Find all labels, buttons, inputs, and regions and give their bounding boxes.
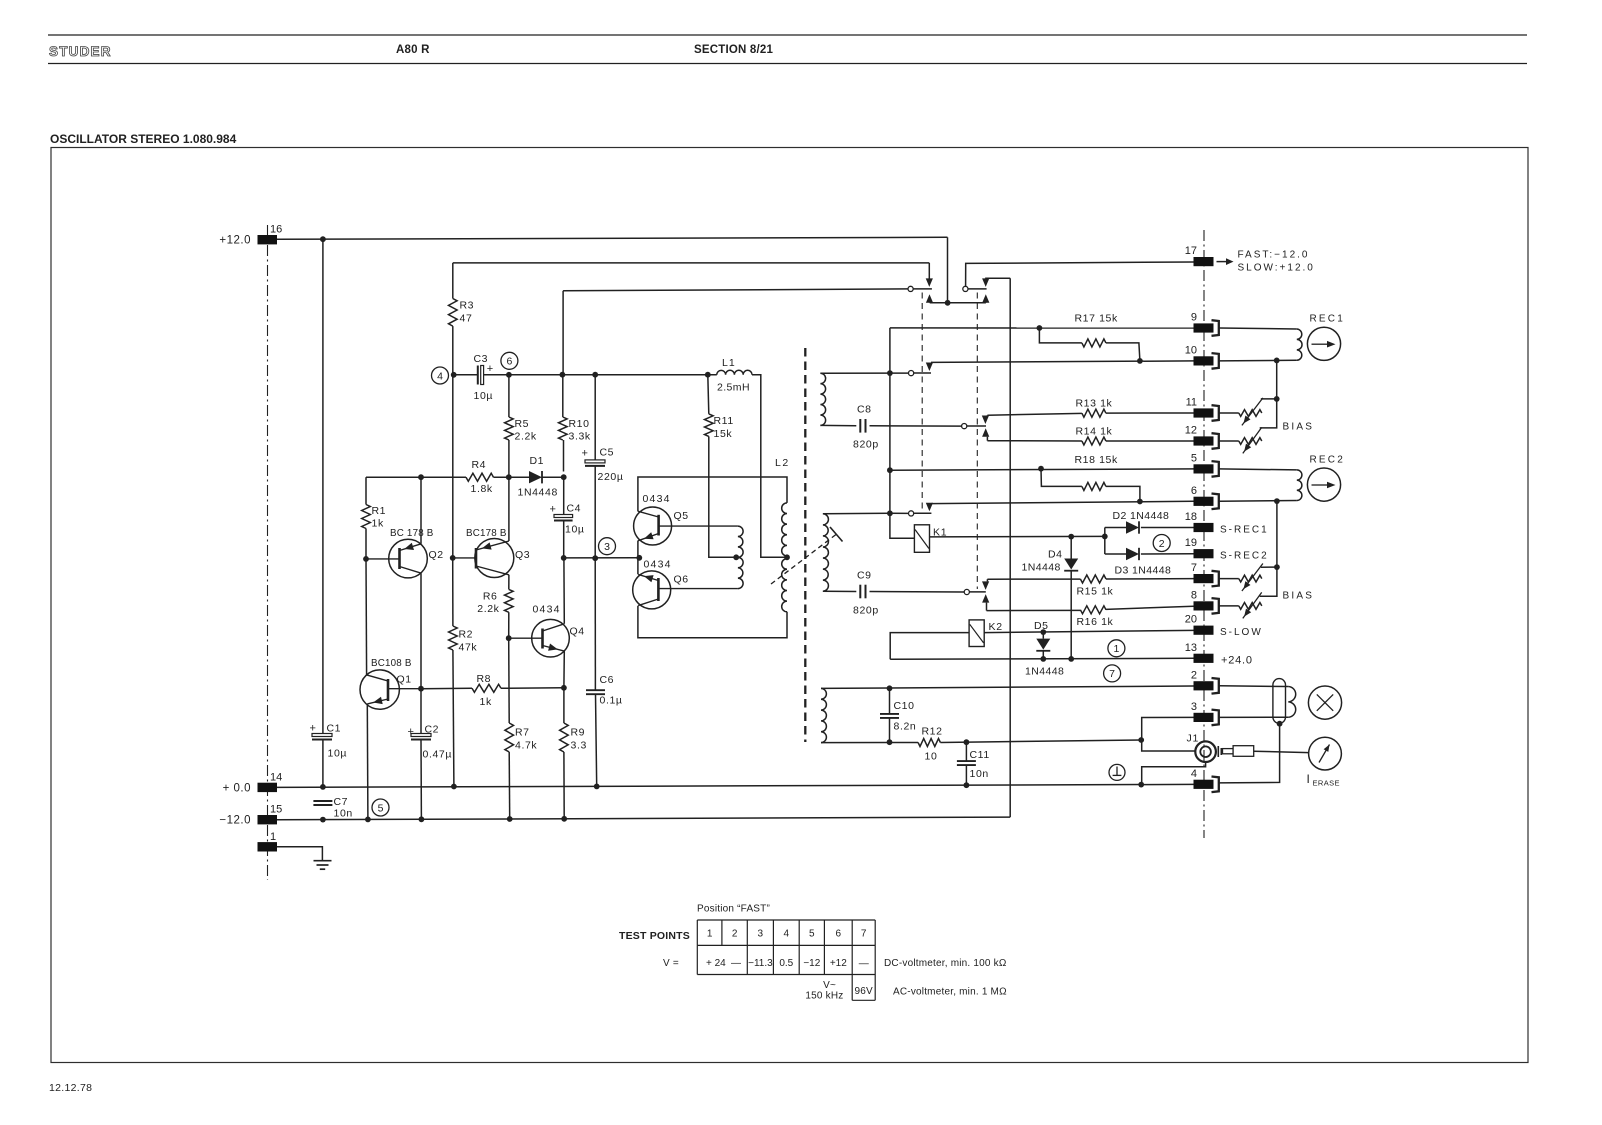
test point circle 4 node 4: [432, 367, 449, 384]
erase current meter: [1309, 737, 1342, 770]
capacitor C7: [313, 800, 332, 802]
inductor L2 primary lower half: [782, 559, 787, 612]
terminal 9: [1194, 323, 1214, 332]
svg-text:15k: 15k: [714, 428, 733, 440]
svg-text:Q4: Q4: [570, 626, 585, 638]
svg-text:−12: −12: [803, 958, 820, 969]
terminal 13: [1194, 654, 1214, 663]
svg-text:C10: C10: [894, 700, 915, 712]
svg-text:S-REC1: S-REC1: [1220, 525, 1269, 536]
junction node6 C5 column: [592, 372, 598, 378]
svg-text:V~: V~: [823, 980, 836, 991]
svg-text:REC2: REC2: [1310, 455, 1345, 466]
bias trimmer 1: [1239, 410, 1262, 417]
svg-text:R16 1k: R16 1k: [1077, 616, 1114, 628]
svg-text:C9: C9: [857, 570, 872, 582]
svg-text:7: 7: [861, 929, 867, 940]
wire node3 to C6: [594, 558, 596, 690]
junction -12V Q1 emitter column: [365, 817, 371, 823]
page header rule top: [48, 34, 1527, 36]
wire common column x890: [890, 328, 915, 538]
svg-text:+: +: [550, 504, 556, 516]
svg-text:STUDER: STUDER: [49, 44, 112, 59]
terminal 7 wire with R15: [987, 578, 1080, 580]
wire terminal 8 to trimmer: [1219, 605, 1239, 607]
svg-text:0434: 0434: [643, 493, 671, 505]
terminal 20: [1194, 626, 1214, 635]
bias column REC2: [1276, 501, 1278, 567]
resistor R10: [559, 417, 568, 440]
svg-text:10n: 10n: [970, 768, 989, 780]
terminal 3: [1194, 713, 1214, 722]
junction R4 row / Q2 column: [418, 474, 424, 480]
svg-text:C11: C11: [970, 749, 990, 761]
svg-text:R11: R11: [714, 415, 734, 427]
terminal 17: [1194, 257, 1214, 266]
resistor R1: [362, 505, 371, 529]
resistor R3: [449, 299, 458, 327]
svg-text:96V: 96V: [854, 986, 873, 997]
svg-text:16: 16: [270, 224, 282, 236]
svg-text:10: 10: [925, 751, 938, 763]
terminal 6 wire from switch: [931, 501, 1193, 503]
svg-text:14: 14: [270, 771, 282, 783]
junction R17 tap: [1037, 325, 1043, 331]
wire Q5 collector loop top: [638, 477, 787, 512]
wire terminal 5 to REC2 coil: [1219, 469, 1297, 470]
junction REC2 return / bias column: [1274, 498, 1280, 504]
transistor Q4 0434: [532, 619, 570, 657]
wire C1 branch vertical: [322, 239, 324, 733]
test point circle 1: [1108, 640, 1125, 657]
junction L2 centre tap: [784, 554, 790, 560]
svg-text:K2: K2: [989, 621, 1003, 633]
terminal 1: [258, 842, 278, 851]
wire R3 column through Q3 base: [452, 375, 454, 558]
svg-text:220µ: 220µ: [598, 471, 624, 483]
inductor L2 primary upper half: [782, 503, 787, 556]
ground symbol: [314, 860, 332, 862]
transformer secondary 2 winding: [823, 514, 829, 591]
diode D3 1N4448: [1105, 553, 1126, 555]
terminal 5 wire: [890, 469, 1194, 470]
junction 0V rail J1 ground branch: [1138, 782, 1144, 788]
wire terminal 1 to ground: [277, 847, 322, 861]
wire C5 column from node6: [594, 375, 596, 460]
svg-text:3.3k: 3.3k: [569, 431, 591, 443]
svg-text:D4: D4: [1048, 549, 1063, 561]
test point circle 3: [599, 538, 616, 555]
page header rule bottom: [48, 63, 1527, 65]
svg-text:9: 9: [1191, 312, 1197, 324]
wire C1 to 0V rail: [322, 740, 324, 787]
record head REC2 coil: [1297, 470, 1302, 501]
svg-text:−12.0: −12.0: [219, 815, 251, 827]
switch contact FAST left: [908, 286, 913, 291]
erase winding bottom wire to R12: [821, 742, 918, 744]
svg-text:R12: R12: [922, 726, 943, 738]
junction common column R18 tee: [887, 467, 893, 473]
secondary 1 top wire to common column: [820, 372, 890, 374]
svg-text:R18 15k: R18 15k: [1075, 454, 1118, 466]
terminal 4: [1194, 780, 1214, 789]
svg-text:—: —: [731, 958, 741, 969]
left edge-connector dash-dot line: [267, 225, 269, 880]
junction D2/D3 fork: [1102, 534, 1108, 540]
wire Q3 collector to R6: [508, 575, 510, 590]
svg-text:BIAS: BIAS: [1283, 422, 1315, 433]
svg-text:+24.0: +24.0: [1221, 654, 1253, 666]
svg-text:D2 1N4448: D2 1N4448: [1113, 510, 1170, 522]
wire R2 to 0V rail: [453, 650, 454, 787]
svg-text:BC 178 B: BC 178 B: [390, 528, 434, 539]
wire R10 column upper / switch feed y=291: [562, 291, 564, 375]
svg-text:1k: 1k: [372, 518, 384, 530]
svg-text:12.12.78: 12.12.78: [49, 1082, 92, 1094]
svg-text:TEST POINTS: TEST POINTS: [619, 930, 690, 942]
junction D4 top: [1068, 534, 1074, 540]
svg-text:1: 1: [270, 831, 276, 843]
svg-text:DC-voltmeter, min. 100 kΩ: DC-voltmeter, min. 100 kΩ: [884, 958, 1007, 969]
svg-text:S-REC2: S-REC2: [1220, 551, 1269, 562]
svg-text:AC-voltmeter, min. 1 MΩ: AC-voltmeter, min. 1 MΩ: [893, 987, 1007, 998]
terminal 14 +0.0: [258, 783, 278, 792]
junction REC1 return / bias column: [1274, 358, 1280, 364]
svg-text:J1: J1: [1187, 733, 1200, 745]
svg-text:C7: C7: [334, 796, 349, 808]
junction C10 top: [887, 685, 893, 691]
svg-text:0434: 0434: [644, 559, 672, 571]
switch linkage dashed left: [921, 293, 923, 512]
svg-text:C2: C2: [425, 724, 440, 736]
test point circle 5: [372, 799, 389, 816]
svg-text:19: 19: [1185, 537, 1197, 549]
transistor Q5 0434: [634, 507, 672, 545]
diode fork vertical: [1104, 528, 1106, 555]
svg-text:47k: 47k: [459, 642, 478, 654]
record head REC1 symbol: [1307, 327, 1340, 360]
wire R9 to -12V rail: [563, 752, 565, 819]
bias trimmer 4: [1239, 603, 1262, 610]
junction node 3 at C4: [561, 555, 567, 561]
secondary 2 top wire to common column: [823, 512, 890, 515]
junction node3 C5/C6 column: [592, 555, 598, 561]
svg-text:15: 15: [270, 804, 282, 816]
svg-text:Q1: Q1: [397, 674, 412, 686]
capacitor C6: [586, 689, 605, 691]
diode D5 1N4448: [1042, 632, 1044, 639]
junction R12 wire to J1 column: [1138, 737, 1144, 743]
wire Q6 collector loop bottom: [638, 606, 787, 638]
feedback winding between Q5/Q6 bases: [738, 526, 743, 589]
transistor Q3 BC178B: [475, 539, 514, 578]
svg-text:L2: L2: [775, 457, 790, 469]
svg-text:20: 20: [1185, 614, 1197, 626]
terminal 16 +12.0: [258, 235, 278, 244]
junction node 6 / R5 branch: [506, 372, 512, 378]
junction -12V R9: [561, 816, 567, 822]
wire terminal 6 to REC2 coil return: [1219, 500, 1297, 503]
svg-text:2.5mH: 2.5mH: [717, 382, 750, 394]
junction Q1 base / R8: [418, 686, 424, 692]
transformer erase winding: [821, 688, 826, 742]
erase head core capsule: [1273, 679, 1286, 724]
wire Q4 base column to R7: [508, 638, 511, 723]
svg-text:10µ: 10µ: [328, 748, 348, 760]
junction R8 / R9: [561, 685, 567, 691]
transformer secondary 1 winding: [820, 373, 825, 425]
svg-text:12: 12: [1185, 425, 1197, 437]
switch contact right to terminal 17: [963, 286, 968, 291]
svg-text:Q2: Q2: [429, 549, 444, 561]
svg-text:11: 11: [1186, 397, 1197, 409]
svg-text:2.2k: 2.2k: [477, 603, 499, 615]
terminal 15 -12.0: [258, 815, 278, 824]
wire Q1 emitter to -12V rail: [366, 704, 369, 820]
junction Q2 base / Q1 collector column: [363, 556, 369, 562]
svg-text:4: 4: [1191, 768, 1197, 780]
switch pole up-arrow right: [982, 294, 989, 303]
junction Q3 base: [450, 555, 456, 561]
svg-text:4.7k: 4.7k: [515, 740, 537, 752]
wire +12V switch column: [947, 237, 949, 302]
node 3 wire: [564, 557, 640, 559]
test point circle 2: [1153, 535, 1170, 552]
junction switch bar +12V: [945, 300, 951, 306]
transformer core dashed line: [804, 348, 806, 742]
resistor R18 15k jog: [1041, 469, 1082, 487]
wire D1 node to C4: [563, 477, 565, 514]
wire R4/D1 row start: [366, 476, 466, 478]
svg-text:I: I: [1307, 772, 1310, 786]
svg-text:R17 15k: R17 15k: [1075, 313, 1118, 325]
svg-text:S-LOW: S-LOW: [1220, 627, 1263, 638]
capacitor C11 10n: [965, 742, 967, 761]
96V cell box: [851, 975, 853, 1001]
terminal 19: [1194, 549, 1214, 558]
svg-text:5: 5: [1191, 452, 1197, 464]
terminal 7: [1194, 574, 1214, 583]
wire terminal 10 to REC1 coil return: [1219, 359, 1297, 362]
svg-text:2.2k: 2.2k: [515, 431, 537, 443]
switch pole up-arrow left: [926, 294, 933, 303]
svg-text:150 kHz: 150 kHz: [805, 991, 843, 1002]
svg-text:C8: C8: [857, 404, 872, 416]
resistor R12 10: [918, 739, 940, 747]
capacitor C9 820p: [859, 585, 861, 599]
capacitor C2: [411, 734, 431, 737]
svg-text:1: 1: [1113, 643, 1119, 655]
svg-text:R1: R1: [372, 505, 387, 517]
wire R8 to R9 node: [501, 687, 564, 690]
svg-text:C5: C5: [600, 447, 615, 459]
svg-text:10µ: 10µ: [474, 390, 494, 402]
junction C10 bottom: [887, 739, 893, 745]
svg-text:Q6: Q6: [674, 574, 689, 586]
record head REC2 symbol: [1307, 468, 1340, 501]
svg-text:2: 2: [732, 929, 738, 940]
wire R1 to Q2 base: [365, 529, 367, 559]
wire R11 column to centre tap: [709, 436, 736, 557]
resistor R5: [505, 417, 514, 440]
svg-text:R10: R10: [569, 418, 590, 430]
terminal 10: [1194, 356, 1214, 365]
svg-text:1: 1: [707, 929, 713, 940]
svg-text:Position “FAST”: Position “FAST”: [697, 904, 770, 915]
svg-text:+: +: [310, 723, 316, 735]
svg-text:0434: 0434: [533, 604, 561, 616]
wire R5 column: [508, 375, 510, 417]
wire contact to terminal 17: [966, 262, 1194, 286]
switch row C8 contact with arrows: [963, 425, 965, 427]
svg-text:D1: D1: [530, 455, 545, 467]
wire Q2 collector down to Q1 base: [420, 573, 422, 689]
junction R18 tap: [1038, 466, 1044, 472]
svg-text:C3: C3: [474, 353, 489, 365]
wire R10 column node6 to R10: [562, 375, 564, 417]
wire R3 to node 4: [452, 326, 454, 375]
svg-text:7: 7: [1191, 562, 1197, 574]
junction common column row3: [887, 510, 893, 516]
svg-text:4: 4: [784, 929, 790, 940]
svg-text:820p: 820p: [853, 439, 879, 451]
terminal 17 arrow and FAST/SLOW annotation: [1217, 261, 1227, 263]
svg-text:47: 47: [460, 313, 473, 325]
record head REC1 coil: [1297, 329, 1302, 360]
bias trimmer 3: [1239, 575, 1262, 582]
svg-text:A80 R: A80 R: [396, 44, 430, 56]
svg-text:R8: R8: [477, 673, 492, 685]
terminal 11: [1194, 408, 1214, 417]
switch row2 contact: [909, 371, 914, 376]
node 4/6 wire through C3: [454, 374, 478, 376]
svg-text:7: 7: [1109, 668, 1115, 680]
transistor Q1 BC108B: [360, 670, 399, 709]
junction 0V rail C1: [320, 784, 326, 790]
transistor Q6 0434: [633, 571, 671, 609]
test point circle 6: [501, 352, 518, 369]
terminal 9 wire: [890, 327, 1194, 329]
svg-text:10µ: 10µ: [565, 524, 585, 536]
svg-text:1.8k: 1.8k: [471, 483, 493, 495]
wire +12V from terminal 16 to switch column: [277, 237, 948, 239]
svg-text:R7: R7: [515, 727, 530, 739]
svg-text:R9: R9: [571, 727, 586, 739]
svg-text:3: 3: [758, 929, 764, 940]
svg-text:6: 6: [506, 356, 512, 368]
svg-text:SECTION 8/21: SECTION 8/21: [694, 44, 773, 56]
junction bias trimmers REC2: [1274, 564, 1280, 570]
junction node6 R10 column: [560, 372, 566, 378]
svg-text:13: 13: [1185, 642, 1197, 654]
schematic border frame: [51, 148, 1528, 1063]
resistor R6: [505, 589, 514, 612]
wire R5 to R4 node: [508, 440, 510, 477]
wire y=263 R3 to FAST/SLOW switch: [453, 262, 930, 264]
wire terminal 12 to trimmer: [1219, 440, 1239, 442]
transformer tuning arrow: [771, 535, 836, 585]
svg-text:820p: 820p: [853, 605, 879, 617]
svg-text:R6: R6: [483, 591, 498, 603]
svg-text:OSCILLATOR STEREO 1.080.984: OSCILLATOR STEREO 1.080.984: [50, 132, 237, 146]
terminal 11 wire with R13: [987, 413, 1082, 415]
terminal 18: [1194, 523, 1214, 532]
wire node3 to Q4 collector: [563, 558, 565, 624]
wire C8 to switch contact: [870, 425, 962, 427]
wire R7 to -12V rail: [508, 752, 511, 819]
test point table grid: [697, 919, 875, 921]
wire Q3 base column to R2: [452, 558, 454, 626]
svg-text:R2: R2: [459, 629, 474, 641]
relay K1 coil: [914, 525, 929, 553]
wire to R9: [563, 688, 565, 723]
svg-text:0.1µ: 0.1µ: [600, 695, 623, 707]
erase head coil: [1288, 687, 1295, 718]
wire R6 to Q4 base: [508, 612, 510, 638]
svg-text:2: 2: [1159, 538, 1165, 550]
wire R11 top to node6: [708, 375, 709, 414]
svg-text:BIAS: BIAS: [1283, 591, 1315, 602]
capacitor C5: [585, 460, 605, 463]
svg-text:R15 1k: R15 1k: [1077, 586, 1114, 598]
wire terminal 3 branch to J1: [1142, 717, 1196, 751]
wire C4 to node 3: [563, 521, 565, 558]
wire Q5 emitter to node3 junction: [637, 541, 639, 575]
resistor R7: [505, 723, 514, 752]
wire terminal 9 to REC1 coil: [1219, 328, 1297, 329]
wire K2 right to terminal 20: [984, 630, 1193, 632]
svg-text:6: 6: [1191, 485, 1197, 497]
junction D1 / C4: [561, 474, 567, 480]
wire D1 to C4 node: [542, 476, 564, 478]
wire J1 sleeve to ground rail: [1142, 762, 1206, 785]
svg-text:5: 5: [378, 802, 384, 814]
terminal 5: [1194, 464, 1214, 473]
wire terminal 7 to trimmer: [1219, 578, 1239, 580]
switch common bar: [930, 302, 986, 304]
svg-text:8: 8: [1191, 589, 1197, 601]
junction -12V C2 column: [419, 816, 425, 822]
junction D5 bottom: [1040, 656, 1046, 662]
bias trimmer 2: [1239, 438, 1262, 445]
capacitor C3: [477, 366, 479, 385]
wire K2 left to +24 wire: [890, 633, 969, 660]
junction node 4: [451, 372, 457, 378]
svg-text:−11.3: −11.3: [748, 958, 773, 969]
wire R1 column top: [365, 477, 367, 504]
wire Q2 emitter up to R4 row: [420, 477, 422, 544]
terminal 12: [1194, 436, 1214, 445]
junction 0V rail R2: [451, 784, 457, 790]
terminal 8 wire with R16: [987, 609, 1081, 611]
svg-text:SLOW:+12.0: SLOW:+12.0: [1238, 263, 1315, 274]
svg-text:C6: C6: [600, 674, 615, 686]
wire terminal 11 to trimmer: [1219, 412, 1239, 414]
right edge-connector dash-dot line: [1203, 230, 1205, 838]
resistor R9: [560, 723, 569, 752]
capacitor C1: [312, 734, 332, 737]
test point circle 7: [1104, 665, 1121, 682]
svg-text:Q3: Q3: [515, 549, 530, 561]
svg-text:0.5: 0.5: [779, 958, 793, 969]
wire +24V to terminal 13: [890, 658, 1193, 659]
bias column REC1: [1276, 360, 1278, 399]
phone plug symbol: [1217, 746, 1219, 757]
junction -12V C7: [320, 817, 326, 823]
resistor R4: [466, 473, 494, 481]
-12V rail from terminal 15: [277, 817, 1010, 820]
switch linkage dashed right: [976, 293, 978, 590]
